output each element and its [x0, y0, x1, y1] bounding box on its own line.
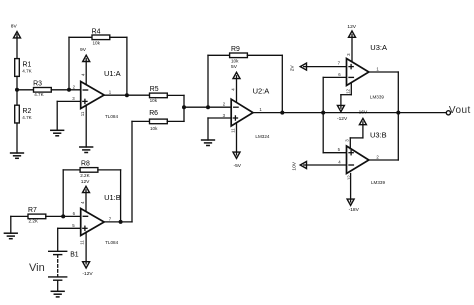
svg-text:U3:B: U3:B	[370, 130, 387, 139]
svg-text:-5V: -5V	[234, 163, 242, 169]
svg-text:16V: 16V	[359, 110, 368, 116]
svg-text:Vin: Vin	[29, 262, 45, 274]
op-amp U1:B	[81, 209, 104, 236]
svg-text:12: 12	[347, 175, 352, 180]
node B (R4 feedback tap on pin2 wire)	[67, 88, 71, 92]
power terminal 10V (U3:B ref)	[300, 162, 346, 169]
terminal Vout	[446, 111, 450, 115]
svg-text:10k: 10k	[150, 126, 158, 131]
svg-text:R3: R3	[33, 81, 42, 88]
power terminal -18V (U3:B V-)	[347, 174, 354, 206]
wire U1:A V- to ground	[85, 105, 87, 147]
svg-text:R8: R8	[81, 161, 90, 168]
svg-text:TL084: TL084	[105, 114, 118, 119]
svg-text:R6: R6	[149, 110, 158, 117]
svg-text:R9: R9	[231, 46, 240, 53]
svg-text:TL084: TL084	[105, 240, 118, 245]
svg-text:U1:B: U1:B	[104, 193, 121, 202]
power terminal 12V (U1:B V+)	[83, 186, 90, 212]
ground under R2	[11, 153, 24, 158]
svg-text:-12V: -12V	[82, 271, 93, 277]
wire bus to U3:A minus and U3:B plus	[323, 77, 346, 152]
ground at U1:A V-	[80, 147, 93, 153]
power terminal 8V	[14, 32, 21, 59]
svg-text:Vout: Vout	[449, 105, 471, 116]
svg-text:4.7K: 4.7K	[22, 115, 32, 120]
node E (R9 tap)	[206, 105, 210, 109]
resistor R5	[150, 93, 185, 107]
power terminal -5V (U2:A V-)	[233, 123, 240, 159]
node A (R1/R2/R3 junction)	[15, 88, 19, 92]
svg-text:2V: 2V	[290, 65, 296, 72]
resistor R1	[15, 59, 20, 90]
ground at U2:A pin3	[202, 140, 215, 146]
svg-text:8V: 8V	[11, 24, 18, 30]
svg-text:11: 11	[80, 240, 85, 245]
svg-text:B1: B1	[70, 251, 79, 258]
svg-text:12V: 12V	[81, 179, 90, 185]
svg-text:4.7K: 4.7K	[22, 68, 32, 73]
resistor R9 feedback loop	[208, 53, 282, 113]
wire U2:A output to Vout bus	[253, 112, 398, 114]
wire U1:A output	[104, 94, 149, 96]
wire U2:A pin3 to ground	[208, 118, 231, 140]
svg-text:2.2K: 2.2K	[29, 218, 39, 223]
svg-text:R5: R5	[150, 86, 159, 93]
power terminal -12V (U1:B V-)	[83, 232, 90, 268]
wire U3:B output	[369, 159, 399, 161]
wire U1:A pin3 to ground	[57, 101, 80, 130]
svg-text:11: 11	[80, 111, 85, 116]
node H (output bus / Vout)	[396, 111, 400, 115]
svg-text:10V: 10V	[291, 161, 297, 170]
node D (R5/R6 join)	[182, 105, 186, 109]
power terminal 12V (U3:A V+)	[349, 31, 356, 62]
svg-text:2.2K: 2.2K	[80, 173, 90, 178]
op-amp U2:A	[231, 99, 253, 126]
resistor R3	[17, 88, 81, 93]
power terminal -12V (U3:A V-)	[337, 84, 351, 112]
svg-text:4.7K: 4.7K	[34, 92, 44, 97]
svg-text:11: 11	[230, 128, 235, 133]
svg-text:LM339: LM339	[371, 180, 385, 185]
comparator U3:A	[347, 59, 369, 86]
resistor R7	[11, 214, 81, 233]
wire U3:A output	[369, 72, 399, 160]
svg-text:9V: 9V	[80, 47, 87, 53]
comparator U3:B	[347, 146, 369, 174]
svg-text:10k: 10k	[150, 98, 158, 103]
ground at B1	[51, 291, 64, 297]
ground at R7	[4, 233, 17, 239]
svg-text:5V: 5V	[231, 64, 238, 70]
power terminal 9V (U1:A V+)	[83, 55, 90, 85]
wire U1:B pin5 to battery	[58, 228, 81, 251]
svg-text:U2:A: U2:A	[253, 86, 270, 95]
resistor R6	[132, 107, 184, 124]
svg-text:10k: 10k	[231, 58, 239, 63]
svg-text:R4: R4	[92, 28, 101, 35]
power terminal 16V (U3:B V+)	[350, 118, 366, 148]
node G (comparator input bus tap)	[321, 111, 325, 115]
node J (R8 to output)	[119, 220, 123, 224]
wire to U2:A pin2	[184, 106, 231, 108]
wire U1:B output	[104, 121, 132, 221]
svg-text:10k: 10k	[93, 40, 101, 45]
svg-text:-12V: -12V	[337, 116, 348, 122]
power terminal 5V (U2:A V+)	[233, 72, 240, 102]
resistor R2	[15, 90, 20, 153]
ground at U1:A pin3	[51, 130, 64, 136]
svg-text:R7: R7	[28, 207, 37, 214]
svg-text:12: 12	[346, 89, 351, 94]
op-amp U1:A	[81, 82, 104, 109]
svg-text:LM339: LM339	[370, 95, 384, 100]
svg-text:12V: 12V	[347, 24, 356, 30]
svg-text:U1:A: U1:A	[104, 69, 121, 78]
svg-text:LM324: LM324	[255, 134, 269, 139]
resistor R8 feedback loop	[63, 168, 120, 222]
wire to Vout terminal	[398, 112, 445, 114]
resistor R4 feedback loop	[69, 35, 127, 95]
node I (R7/R8/pin6)	[61, 214, 65, 218]
battery B1	[49, 251, 67, 291]
node C (U1:A out / R4 / R5)	[125, 93, 129, 97]
node F (R9 to output)	[280, 111, 284, 115]
power terminal 2V (U3:A ref)	[300, 63, 346, 70]
svg-text:U3:A: U3:A	[370, 43, 387, 52]
svg-text:-18V: -18V	[349, 207, 360, 213]
